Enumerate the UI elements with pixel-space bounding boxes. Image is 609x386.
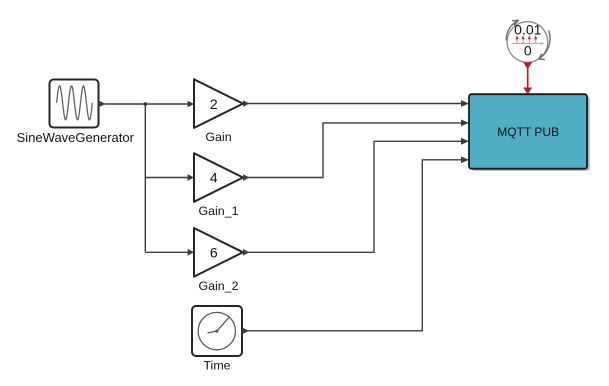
svg-text:Time: Time (203, 358, 230, 372)
output port of Gain_1 (243, 174, 250, 181)
block MQTT PUB (469, 94, 590, 171)
wire Gain_1 output to MQTT PUB port 2 (247, 120, 469, 178)
label Time (203, 358, 230, 372)
output port of Gain (243, 100, 250, 107)
gain block Gain (194, 79, 243, 128)
sample time impulse arrows (red) (515, 35, 537, 43)
svg-text:0.01: 0.01 (514, 21, 541, 37)
sample time legend axis line (512, 42, 545, 45)
wire Gain_2 output to MQTT PUB port 3 (247, 138, 469, 252)
output port of Time (242, 327, 249, 334)
sample time legend circle (507, 22, 548, 63)
sample time legend cyclic arrow bottom-right (539, 31, 550, 60)
label SineWaveGenerator (17, 130, 135, 145)
wire branch to Gain_1 input (145, 174, 194, 181)
wire branch to Gain_2 input (145, 249, 194, 256)
label Gain_1 (199, 204, 239, 218)
wire Time output to MQTT PUB port 4 (246, 156, 469, 330)
gain block Gain_1 (194, 153, 243, 202)
wire Gain output to MQTT PUB port 1 (247, 100, 469, 107)
red sample-time arrow from legend to MQTT PUB (523, 62, 532, 94)
svg-text:2: 2 (210, 96, 218, 112)
output port of SineWaveGenerator (99, 100, 106, 107)
svg-text:6: 6 (210, 245, 218, 261)
junction dot on sine output wire (143, 102, 147, 106)
block Time (clock) (192, 306, 242, 356)
svg-text:Gain: Gain (205, 130, 231, 144)
label Gain (205, 130, 231, 144)
arrowhead into Gain input (188, 101, 194, 108)
gain block Gain_2 (194, 228, 243, 277)
wire from SineWaveGenerator output to Gain input (105, 103, 190, 105)
svg-text:SineWaveGenerator: SineWaveGenerator (17, 130, 135, 145)
sample time value label 0.01 (514, 21, 541, 37)
svg-text:Gain_2: Gain_2 (199, 279, 239, 293)
block SineWaveGenerator (50, 80, 99, 128)
label Gain_2 (199, 279, 239, 293)
svg-text:Gain_1: Gain_1 (199, 204, 239, 218)
svg-text:4: 4 (210, 170, 218, 186)
sample time legend cyclic arrow top-left (506, 20, 518, 40)
sample time offset label 0 (524, 42, 532, 58)
output port of Gain_2 (243, 249, 250, 256)
svg-text:0: 0 (524, 42, 532, 58)
wire branch vertical from junction down to Gain_2 row (144, 104, 146, 252)
svg-text:MQTT PUB: MQTT PUB (497, 125, 559, 139)
